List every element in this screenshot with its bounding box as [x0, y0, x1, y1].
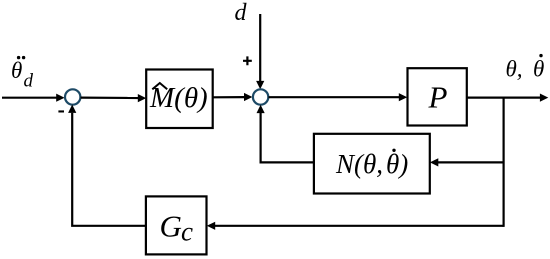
svg-text:c: c — [181, 217, 193, 247]
output label theta comma theta-dot — [506, 54, 545, 82]
svg-text:M(θ): M(θ) — [149, 82, 208, 114]
svg-text:P: P — [428, 79, 448, 114]
svg-text:θ: θ — [11, 58, 22, 83]
svg-text:θ,: θ, — [506, 57, 523, 82]
wire S2 to block P — [269, 93, 408, 101]
svg-text:θ): θ) — [386, 149, 408, 179]
node branch from output — [503, 97, 505, 227]
plus sign at S2 — [243, 56, 252, 65]
svg-text:d: d — [235, 0, 248, 26]
wire branch arrow into block N — [430, 158, 504, 166]
wire bottom feedback arrow into block Gc — [207, 222, 504, 230]
wire block M to summing junction S2 — [213, 93, 253, 101]
input label theta-ddot-d — [11, 56, 34, 92]
summing junction S2 — [253, 89, 268, 104]
svg-text:N(θ,: N(θ, — [335, 149, 383, 179]
svg-text:d: d — [24, 71, 34, 92]
svg-text:G: G — [160, 208, 182, 243]
minus sign at S1 — [58, 110, 64, 112]
wire block Gc to S1 bottom arrow — [68, 105, 146, 226]
svg-text:θ: θ — [533, 57, 544, 82]
summing junction S1 — [65, 89, 80, 104]
wire d input arrow into S2 — [256, 14, 264, 89]
wire input arrow into summing junction S1 — [2, 94, 65, 102]
wire block N to S2 bottom arrow — [257, 105, 314, 163]
block P plant — [408, 68, 467, 125]
wire S1 to block M — [81, 94, 147, 102]
wire output arrow — [467, 94, 549, 102]
block U1 M-hat(theta) — [146, 70, 213, 129]
block Gc controller — [146, 196, 207, 254]
block U2 N(theta,theta-dot) — [314, 134, 430, 194]
